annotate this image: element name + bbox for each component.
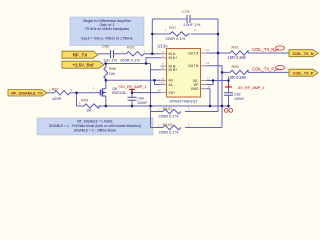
wire R99 left vertical xyxy=(76,93,78,106)
wire C82 to rail xyxy=(228,95,230,106)
port RF_DISABLE_TX xyxy=(8,90,47,96)
svg-text:100nF: 100nF xyxy=(137,101,148,105)
wire input row RF_TX to C80 xyxy=(98,53,110,55)
svg-text:C80: C80 xyxy=(102,44,110,49)
port RF_TX xyxy=(62,51,98,58)
resistor R97 xyxy=(49,86,73,100)
differential pair marker P xyxy=(274,66,284,72)
wire 10k top stub xyxy=(105,64,107,68)
resistor R98 10k vertical xyxy=(104,66,116,79)
svg-text:+2.5V_Ref: +2.5V_Ref xyxy=(72,62,94,67)
resistor R91 xyxy=(228,44,249,60)
port +2.5V_Ref xyxy=(62,61,104,68)
svg-text:R47: R47 xyxy=(169,25,176,30)
note box: RF_DISABLE annotation xyxy=(37,118,153,135)
svg-text:10R 0.5W: 10R 0.5W xyxy=(228,75,246,80)
wire RF_DISABLE row xyxy=(47,92,54,94)
svg-text:VS+: VS+ xyxy=(169,91,176,95)
svg-text:200R 0.1%: 200R 0.1% xyxy=(159,130,179,135)
power port -5V_RF_AMP_1 xyxy=(225,84,265,91)
wire rail jog to IN B+ xyxy=(151,69,161,71)
wire A0 to A1 tie xyxy=(155,80,161,84)
wire R47 row left xyxy=(152,33,170,35)
wire 10k bottom stub xyxy=(105,79,107,80)
wire C80 to R30 xyxy=(114,53,126,55)
schematic page background xyxy=(0,0,320,146)
wire MOSFET drain stub xyxy=(105,80,107,89)
wire R101 row left xyxy=(151,111,164,113)
svg-text:100R: 100R xyxy=(52,96,61,101)
resistor R30 xyxy=(120,45,146,63)
svg-text:100nF: 100nF xyxy=(234,97,245,101)
wire OUT B vertical xyxy=(221,72,223,127)
wire R103 row left xyxy=(151,127,164,129)
ground symbol xyxy=(224,106,232,112)
wire R30 to IN A- xyxy=(146,53,161,55)
power port +5V_RF_AMP_1 xyxy=(118,85,147,93)
capacitor C84 xyxy=(128,97,149,105)
svg-text:200R 0.1%: 200R 0.1% xyxy=(120,58,140,63)
junction dots xyxy=(75,33,229,107)
svg-text:200R 0.1%: 200R 0.1% xyxy=(159,114,179,119)
svg-text:R95: R95 xyxy=(232,64,239,69)
svg-text:DISABLE = 0 - Offline Mode: DISABLE = 0 - Offline Mode xyxy=(74,128,116,132)
port COIL_TX_N xyxy=(289,50,318,57)
svg-text:R91: R91 xyxy=(232,44,239,49)
op-amp U13A xyxy=(158,44,211,104)
svg-text:R101: R101 xyxy=(163,106,172,111)
svg-text:IN B+: IN B+ xyxy=(169,68,178,72)
wire C84 stem top xyxy=(131,93,133,98)
svg-text:OPA2674IDGQT: OPA2674IDGQT xyxy=(169,100,198,104)
svg-text:COIL_TX_N: COIL_TX_N xyxy=(293,52,314,56)
svg-text:A1: A1 xyxy=(169,83,173,87)
svg-text:U13A: U13A xyxy=(158,44,169,49)
svg-text:DISABLE = 1 - Full Bias Mode (: DISABLE = 1 - Full Bias Mode (both on wi… xyxy=(49,124,141,128)
wire OUT B jog xyxy=(207,66,223,73)
wire R101 row right xyxy=(185,111,218,113)
wire GND pin down xyxy=(207,89,211,106)
svg-text:RF_DISABLE => A0/A1: RF_DISABLE => A0/A1 xyxy=(77,119,113,123)
svg-text:10R 0.5W: 10R 0.5W xyxy=(228,55,246,60)
svg-text:IN A+: IN A+ xyxy=(169,56,178,60)
wire ground rail xyxy=(98,105,229,107)
wire rail to IN A+ xyxy=(146,58,161,64)
svg-text:OUT B: OUT B xyxy=(188,64,199,68)
svg-text:OUT A: OUT A xyxy=(188,51,199,55)
svg-text:1.0nF, 1%: 1.0nF, 1% xyxy=(183,22,201,27)
wire A0 row xyxy=(106,79,161,81)
svg-text:C82: C82 xyxy=(234,92,241,96)
svg-text:R97: R97 xyxy=(52,86,59,91)
capacitor C79 xyxy=(182,9,201,27)
svg-text:Input = 5Vp-p 70kHz to 175kHz: Input = 5Vp-p 70kHz to 175kHz xyxy=(81,36,133,40)
wire +2.5V_Ref rail xyxy=(104,63,151,65)
wire left reference vertical xyxy=(150,64,152,128)
svg-text:1uF, 1%: 1uF, 1% xyxy=(103,58,118,63)
capacitor C82 xyxy=(224,92,245,100)
wire OUT A row xyxy=(207,52,231,54)
svg-text:+5V_RF_AMP_1: +5V_RF_AMP_1 xyxy=(118,85,147,89)
svg-text:-5V_RF_AMP_1: -5V_RF_AMP_1 xyxy=(237,86,265,90)
resistor R101 xyxy=(158,106,190,119)
wire feedback left vertical xyxy=(151,19,153,54)
capacitor C80 xyxy=(102,44,118,63)
wire R47 row right xyxy=(191,33,218,35)
resistor R103 xyxy=(158,122,190,135)
svg-text:R99: R99 xyxy=(81,97,88,102)
svg-text:79.5Hz to 42kHz bandpass: 79.5Hz to 42kHz bandpass xyxy=(85,27,129,31)
wire feedback right vertical xyxy=(217,19,219,112)
wire C79 to right vertical xyxy=(190,18,218,20)
svg-text:R103: R103 xyxy=(163,122,172,127)
wire C84 stem bottom xyxy=(131,100,133,106)
wire MOSFET source stub xyxy=(105,96,107,106)
wire R103 row right xyxy=(185,127,222,129)
differential pair marker N xyxy=(274,46,284,52)
svg-text:C79: C79 xyxy=(182,9,189,14)
svg-text:RF_TX: RF_TX xyxy=(73,52,88,57)
svg-text:COIL_TX_P: COIL_TX_P xyxy=(293,71,314,75)
port COIL_TX_P xyxy=(289,69,318,76)
svg-text:R30: R30 xyxy=(127,45,135,50)
svg-text:200R 0.1%: 200R 0.1% xyxy=(166,36,186,41)
wire EP tie xyxy=(207,81,214,85)
svg-text:10k: 10k xyxy=(109,71,115,76)
svg-text:COIL_TX_N: COIL_TX_N xyxy=(252,47,274,52)
resistor R95 xyxy=(228,64,249,80)
wire VS+ row xyxy=(132,92,161,94)
svg-text:1M: 1M xyxy=(86,108,91,113)
svg-text:BSS138: BSS138 xyxy=(112,91,125,95)
wire feedback top to C79 xyxy=(152,18,187,20)
note box: title annotation xyxy=(70,17,144,46)
wire VS- vertical to C82 xyxy=(228,81,230,93)
resistor R99 1M xyxy=(79,97,100,112)
svg-text:COIL_TX_P: COIL_TX_P xyxy=(252,67,274,72)
resistor R47 xyxy=(165,25,196,41)
wire ground rail left xyxy=(77,105,85,107)
svg-text:RF_DISABLE_TX: RF_DISABLE_TX xyxy=(11,90,43,95)
transistor Q8 BSS138 xyxy=(93,86,126,97)
svg-text:GND: GND xyxy=(191,87,199,91)
svg-text:C84: C84 xyxy=(137,97,144,101)
wire VS- row xyxy=(207,80,229,82)
wire OUT B row xyxy=(222,71,230,73)
